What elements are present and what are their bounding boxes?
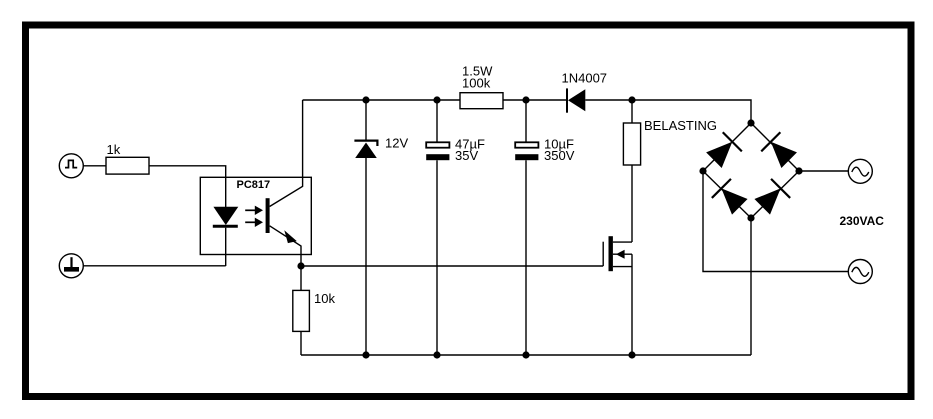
pulse source V1 (59, 154, 83, 178)
svg-text:230VAC: 230VAC (840, 214, 885, 228)
capacitor C1 47uF (426, 100, 449, 355)
wire bridge right to AC1 (799, 170, 848, 172)
capacitor C2 10uF (515, 100, 538, 355)
junction dot Q1 source bottom (628, 351, 635, 358)
svg-text:100k: 100k (462, 76, 491, 91)
svg-text:35V: 35V (455, 148, 478, 163)
top rail middle segment (503, 99, 567, 101)
wire V1 to R1 (83, 165, 106, 167)
svg-text:PC817: PC817 (237, 179, 271, 191)
phototransistor base bar (266, 198, 270, 233)
junction dot belasting top (628, 96, 635, 103)
svg-text:12V: 12V (385, 135, 408, 150)
svg-text:1k: 1k (107, 142, 121, 157)
wire R1 to LED anode (149, 166, 226, 207)
bridge diode bottom-right (753, 179, 790, 216)
AC source terminal 1 (848, 159, 872, 183)
light arrow 1 (245, 206, 263, 215)
bridge node top dot (747, 119, 754, 126)
bridge node left dot (699, 167, 706, 174)
wire LED cathode down (225, 228, 227, 266)
wire bridge bottom to rail (750, 218, 752, 355)
AC source terminal 2 (848, 260, 872, 284)
junction dot C2 bottom (522, 351, 529, 358)
mosfet Q1 (603, 236, 632, 355)
resistor R4 BELASTING (623, 100, 640, 242)
wire bridge left to AC2 (703, 171, 848, 272)
bridge diode top-left (704, 132, 741, 169)
bridge node bottom dot (747, 214, 754, 221)
svg-text:1N4007: 1N4007 (562, 71, 608, 86)
junction dot C1 bottom (433, 351, 440, 358)
svg-text:BELASTING: BELASTING (644, 118, 717, 133)
LED inside U1 (213, 207, 239, 227)
label 1.5W / 100k (462, 64, 493, 91)
bridge rectifier wires (703, 123, 799, 218)
collector wire (270, 100, 303, 207)
gate wire node A to Q1 (301, 265, 603, 267)
top rail right segment (585, 100, 751, 123)
label 47uF / 35V (455, 136, 485, 163)
ground source terminal (59, 254, 83, 278)
bridge node right dot (795, 167, 802, 174)
junction dot zener bottom (362, 351, 369, 358)
bridge diode bottom-left (712, 179, 749, 216)
junction dot zener top (362, 96, 369, 103)
wire ground terminal to LED cathode (83, 265, 225, 267)
emitter wire with arrow (270, 226, 301, 266)
junction dot C1 top (433, 96, 440, 103)
resistor R2 10k (293, 266, 310, 355)
bridge diode top-right (761, 132, 798, 169)
node A junction dot (297, 262, 304, 269)
top rail left segment (303, 99, 460, 101)
bottom rail (301, 354, 751, 356)
junction dot C2 top (522, 96, 529, 103)
light arrow 2 (245, 218, 263, 227)
svg-text:350V: 350V (544, 148, 575, 163)
label 10uF / 350V (544, 136, 575, 163)
svg-text:10k: 10k (314, 291, 335, 306)
resistor R3 100k 1.5W (460, 93, 503, 109)
resistor R1 1k (106, 157, 149, 174)
diode D2 1N4007 (567, 88, 585, 112)
zener D1 (354, 100, 377, 355)
optocoupler U1 box (200, 177, 311, 254)
